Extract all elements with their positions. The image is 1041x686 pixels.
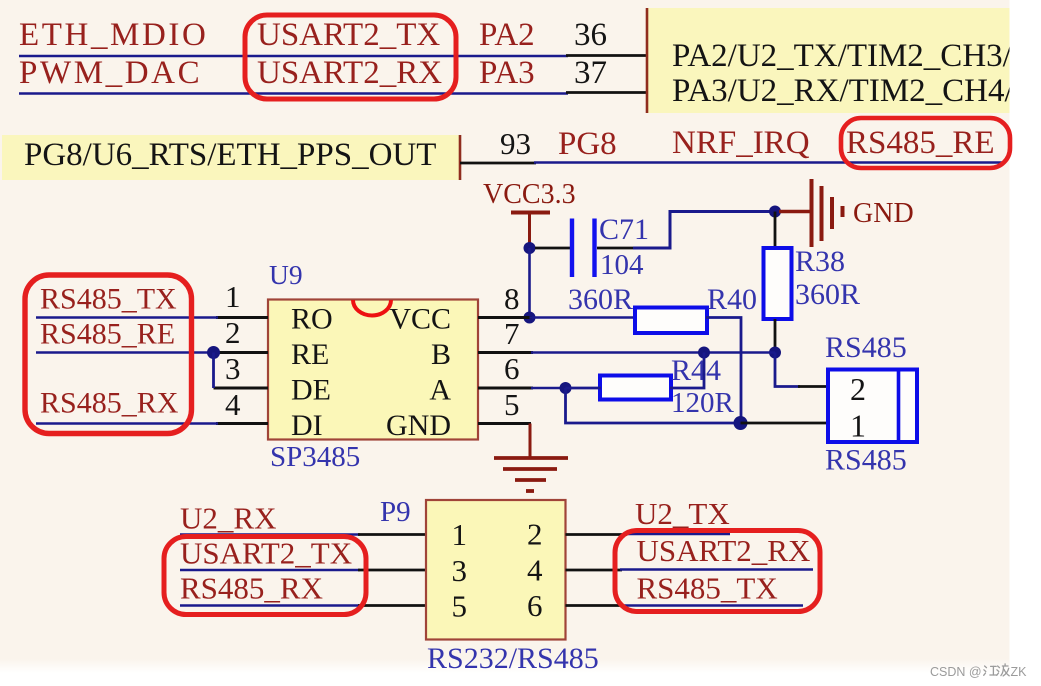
svg-text:DI: DI xyxy=(291,409,323,442)
pin stub 6 xyxy=(478,387,533,390)
svg-text:PA2: PA2 xyxy=(479,17,535,53)
annotation oval RS485_RE xyxy=(841,118,1010,168)
wire PA3 xyxy=(19,92,568,95)
svg-text:7: 7 xyxy=(504,316,520,351)
connector RS485 body xyxy=(828,370,917,443)
wire VCC vertical xyxy=(528,248,531,318)
svg-text:B: B xyxy=(431,338,451,371)
wire GND to R38 xyxy=(774,212,777,250)
wire PG8 xyxy=(534,161,1002,164)
pin stub connector pin1 xyxy=(741,422,828,425)
annotation oval bottom right xyxy=(615,531,820,612)
wire U2_RX xyxy=(180,533,360,536)
svg-text:C71: C71 xyxy=(599,213,649,246)
wire R38 to B line xyxy=(774,319,777,353)
junction B/R44 xyxy=(698,347,710,359)
svg-text:USART2_TX: USART2_TX xyxy=(180,536,352,571)
svg-text:PG8: PG8 xyxy=(558,126,617,162)
white margin right xyxy=(1010,0,1041,686)
earth ground stem xyxy=(529,424,532,459)
wire RS485_RE xyxy=(36,351,214,354)
svg-text:360R: 360R xyxy=(795,278,860,311)
watermark glyph bo xyxy=(997,664,1010,676)
svg-text:93: 93 xyxy=(500,126,531,161)
pin stub PG8 xyxy=(460,162,536,165)
wire RS485_RX bottom xyxy=(180,604,360,607)
wire U2_TX xyxy=(625,533,730,536)
svg-text:RS485_RE: RS485_RE xyxy=(40,318,175,351)
svg-text:4: 4 xyxy=(225,387,241,422)
svg-text:GND: GND xyxy=(853,198,914,229)
wire B to connector pin2 xyxy=(775,353,800,387)
pin stub 2 xyxy=(214,351,269,354)
wire USART2_TX bottom xyxy=(180,569,360,572)
svg-text:36: 36 xyxy=(574,17,607,53)
svg-text:CSDN @: CSDN @ xyxy=(930,665,982,679)
svg-text:8: 8 xyxy=(504,281,520,316)
svg-text:5: 5 xyxy=(452,589,468,624)
pin stub P9-1 xyxy=(358,533,426,536)
wire pin7 B xyxy=(531,351,775,354)
annotation oval RS485 left xyxy=(25,275,192,434)
svg-text:RO: RO xyxy=(291,303,333,336)
svg-text:VCC3.3: VCC3.3 xyxy=(483,179,576,210)
wire R40 to A-line xyxy=(706,318,741,424)
wire PA2 xyxy=(19,55,568,58)
junction RE/DE tie xyxy=(207,346,220,359)
svg-text:6: 6 xyxy=(504,351,520,386)
chip U9 notch xyxy=(353,300,391,315)
svg-text:R38: R38 xyxy=(795,245,845,278)
svg-text:2: 2 xyxy=(527,517,543,552)
pin stub 7 xyxy=(478,351,533,354)
pin stub P9-6 xyxy=(566,604,623,607)
svg-text:RS485_RX: RS485_RX xyxy=(180,571,323,606)
svg-text:PA3/U2_RX/TIM2_CH4/E: PA3/U2_RX/TIM2_CH4/E xyxy=(672,73,1034,109)
pin stub PA3 xyxy=(566,91,647,94)
wire RS485_RX xyxy=(36,422,218,425)
svg-text:RS485: RS485 xyxy=(825,444,907,477)
svg-text:RS485: RS485 xyxy=(825,331,907,364)
wire C71 right xyxy=(597,247,634,250)
power GND symbol xyxy=(779,179,843,247)
svg-text:PA2/U2_TX/TIM2_CH3/E: PA2/U2_TX/TIM2_CH3/E xyxy=(672,38,1032,74)
junction B line R38 xyxy=(769,347,781,359)
pin stub connector pin2 xyxy=(798,385,827,388)
MCU port box PA2/PA3 xyxy=(647,8,1010,113)
wire R44 to B xyxy=(670,353,704,389)
svg-text:U9: U9 xyxy=(269,259,303,290)
svg-text:1: 1 xyxy=(850,408,866,444)
svg-text:1: 1 xyxy=(452,517,468,552)
junction VCC pin8 xyxy=(524,312,536,324)
svg-text:120R: 120R xyxy=(671,387,735,419)
svg-text:ETH_MDIO: ETH_MDIO xyxy=(19,17,208,53)
resistor R44 xyxy=(600,376,671,400)
pin stub P9-2 xyxy=(566,533,628,536)
svg-text:R40: R40 xyxy=(707,283,757,316)
resistor R38 xyxy=(764,248,792,319)
svg-text:360R: 360R xyxy=(568,283,633,316)
svg-text:DE: DE xyxy=(291,374,331,407)
connector P9 body xyxy=(426,500,566,640)
pin stub 1 xyxy=(216,316,268,319)
svg-text:RS485_RE: RS485_RE xyxy=(846,125,995,161)
svg-text:3: 3 xyxy=(225,351,241,386)
wire RE to DE xyxy=(212,353,215,389)
pin stub 4 xyxy=(216,422,268,425)
resistor R40 xyxy=(635,308,707,334)
svg-text:U2_RX: U2_RX xyxy=(180,501,276,536)
svg-text:2: 2 xyxy=(225,315,241,350)
svg-text:RS485_TX: RS485_TX xyxy=(40,283,177,316)
svg-text:R44: R44 xyxy=(671,354,721,387)
annotation oval bottom left xyxy=(164,537,366,615)
chip U9 body xyxy=(268,300,478,440)
svg-text:VCC: VCC xyxy=(389,303,451,336)
wire pin6 A xyxy=(531,387,566,390)
pin stub 5 GND xyxy=(478,422,531,425)
pin stub P9-3 xyxy=(358,569,426,572)
wire RS485_TX bottom xyxy=(620,604,803,607)
pin stub 3 xyxy=(214,387,269,390)
pin stub P9-5 xyxy=(358,604,426,607)
white margin bottom xyxy=(0,673,1041,686)
connector RS485 divider xyxy=(897,370,901,443)
junction A/R40 xyxy=(734,416,748,430)
svg-text:P9: P9 xyxy=(380,496,411,528)
watermark glyph jiang xyxy=(984,666,997,675)
svg-text:2: 2 xyxy=(850,371,866,407)
svg-text:USART2_RX: USART2_RX xyxy=(257,55,442,91)
svg-text:SP3485: SP3485 xyxy=(270,441,360,473)
svg-text:RE: RE xyxy=(291,338,329,371)
junction VCC top xyxy=(524,242,536,254)
earth ground bars xyxy=(494,458,568,491)
wire C71 to GND corner xyxy=(633,212,776,249)
svg-text:4: 4 xyxy=(527,553,543,588)
annotation oval USART2 top xyxy=(245,15,456,99)
svg-text:PWM_DAC: PWM_DAC xyxy=(19,55,202,91)
junction A/R44 xyxy=(560,382,572,394)
svg-text:PA3: PA3 xyxy=(479,55,535,91)
wire RS485_TX xyxy=(36,316,218,319)
pin stub P9-4 xyxy=(566,569,623,572)
svg-text:1: 1 xyxy=(225,279,241,314)
svg-text:USART2_RX: USART2_RX xyxy=(637,533,811,568)
svg-text:6: 6 xyxy=(527,588,543,623)
wire C71 left xyxy=(535,247,570,250)
svg-text:GND: GND xyxy=(386,409,451,442)
PG8 box right border xyxy=(459,135,462,180)
wire USART2_RX bottom xyxy=(620,568,813,571)
svg-text:37: 37 xyxy=(574,55,607,91)
svg-text:PG8/U6_RTS/ETH_PPS_OUT: PG8/U6_RTS/ETH_PPS_OUT xyxy=(24,137,436,173)
svg-text:USART2_TX: USART2_TX xyxy=(257,17,440,53)
wire R44 left xyxy=(566,387,602,390)
wire A down and right xyxy=(566,388,741,423)
svg-text:ZK: ZK xyxy=(1011,665,1028,679)
pin stub PA2 xyxy=(566,54,647,57)
junction GND node xyxy=(769,206,781,218)
wire GND pin5 xyxy=(529,422,531,425)
svg-text:5: 5 xyxy=(504,387,520,422)
svg-text:3: 3 xyxy=(452,553,468,588)
svg-text:RS232/RS485: RS232/RS485 xyxy=(427,642,599,675)
svg-text:RS485_TX: RS485_TX xyxy=(637,571,778,606)
MCU port box left border xyxy=(646,8,649,113)
svg-text:NRF_IRQ: NRF_IRQ xyxy=(672,125,810,161)
svg-text:U2_TX: U2_TX xyxy=(635,496,730,531)
wire pin8 to R40 xyxy=(530,316,637,319)
power VCC3.3 bar symbol xyxy=(511,212,550,246)
svg-text:A: A xyxy=(429,374,451,407)
MCU port box PG8 xyxy=(2,135,460,180)
svg-text:RS485_RX: RS485_RX xyxy=(40,387,179,420)
pin stub 8 xyxy=(478,316,532,319)
capacitor C71 xyxy=(572,219,595,278)
svg-text:104: 104 xyxy=(600,249,644,281)
